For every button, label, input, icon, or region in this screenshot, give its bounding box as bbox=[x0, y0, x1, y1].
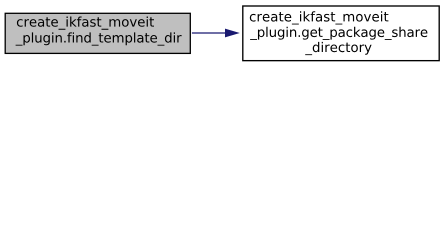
node box get_package_share_directory (called node, white fill) bbox=[243, 6, 439, 61]
node label get_package_share_directory line 2: "_plugin.get_package_share" bbox=[250, 27, 427, 40]
node label get_package_share_directory line 3: "_directory" bbox=[305, 42, 371, 55]
doxygen call graph: create_ikfast_moveit_plugin.find_template_dir -> get_package_share_directory bbox=[0, 0, 444, 67]
node label find_template_dir line 1: "create_ikfast_moveit" bbox=[17, 16, 154, 29]
edge wire (call arrow shaft) bbox=[192, 32, 227, 34]
node label find_template_dir line 2: "_plugin.find_template_dir" bbox=[16, 32, 182, 45]
edge arrowhead bbox=[225, 29, 240, 38]
node box find_template_dir (current node, gray fill) bbox=[5, 13, 190, 53]
node label get_package_share_directory line 1: "create_ikfast_moveit" bbox=[250, 11, 389, 24]
